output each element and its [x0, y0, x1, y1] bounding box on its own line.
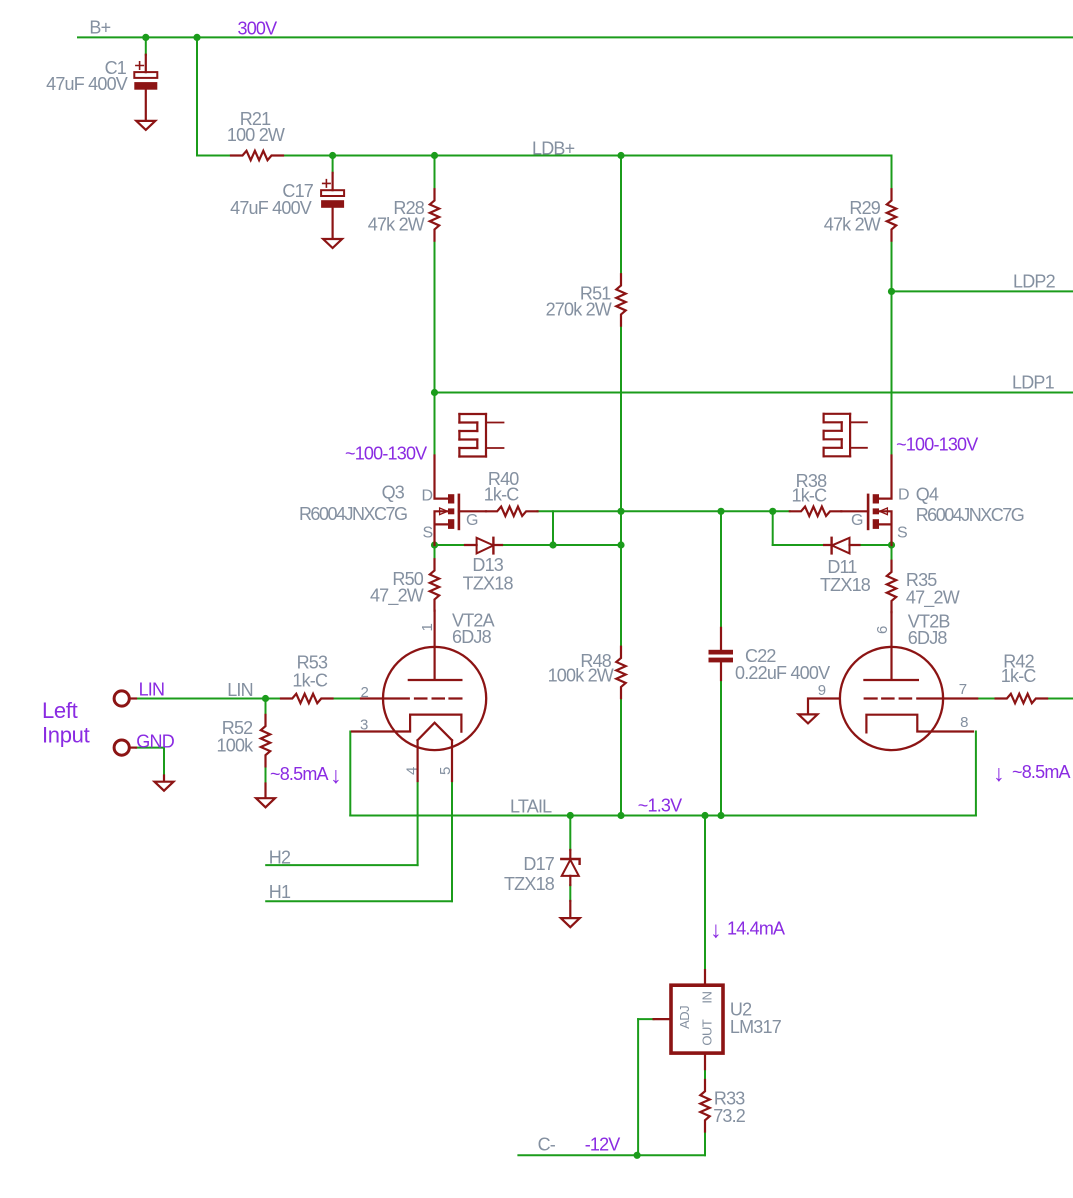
svg-text:73.2: 73.2	[713, 1106, 746, 1126]
svg-text:9: 9	[818, 682, 826, 699]
svg-text:S: S	[897, 525, 907, 542]
svg-text:Q4: Q4	[916, 485, 939, 505]
svg-text:1k-C: 1k-C	[484, 485, 520, 505]
svg-text:8: 8	[960, 714, 968, 731]
svg-text:5: 5	[437, 767, 454, 775]
svg-text:Q3: Q3	[382, 483, 405, 503]
svg-text:D13: D13	[472, 555, 503, 575]
svg-text:1: 1	[419, 624, 436, 632]
svg-text:IN: IN	[700, 991, 715, 1003]
svg-text:LDP1: LDP1	[1012, 373, 1055, 393]
svg-text:S: S	[423, 525, 433, 542]
svg-text:100k 2W: 100k 2W	[548, 666, 614, 686]
svg-text:~100-130V: ~100-130V	[896, 435, 978, 455]
svg-text:GND: GND	[136, 731, 174, 751]
svg-text:0.22uF 400V: 0.22uF 400V	[735, 663, 830, 683]
svg-text:100 2W: 100 2W	[227, 125, 285, 145]
svg-text:C-: C-	[538, 1134, 556, 1154]
svg-text:300V: 300V	[238, 18, 278, 38]
svg-text:TZX18: TZX18	[463, 573, 514, 593]
svg-text:LDB+: LDB+	[532, 138, 575, 158]
svg-text:TZX18: TZX18	[504, 874, 555, 894]
svg-text:Input: Input	[42, 722, 90, 747]
svg-text:R6004JNXC7G: R6004JNXC7G	[916, 505, 1024, 525]
svg-text:↓: ↓	[710, 917, 722, 943]
svg-text:1k-C: 1k-C	[1001, 666, 1037, 686]
svg-text:LIN: LIN	[139, 680, 165, 700]
svg-text:47k 2W: 47k 2W	[368, 214, 425, 234]
svg-text:R53: R53	[297, 652, 328, 672]
svg-text:D17: D17	[523, 854, 554, 874]
svg-text:100k: 100k	[217, 736, 255, 756]
svg-text:47uF 400V: 47uF 400V	[46, 74, 128, 94]
svg-text:3: 3	[360, 716, 368, 733]
svg-text:47_2W: 47_2W	[370, 585, 424, 606]
svg-text:2: 2	[361, 684, 369, 701]
svg-text:7: 7	[959, 681, 967, 698]
svg-text:4: 4	[404, 767, 421, 775]
svg-text:6DJ8: 6DJ8	[908, 628, 948, 648]
svg-text:G: G	[466, 512, 478, 529]
svg-text:ADJ: ADJ	[677, 1006, 692, 1029]
svg-text:1k-C: 1k-C	[791, 486, 827, 506]
svg-text:TZX18: TZX18	[820, 575, 871, 595]
svg-text:LM317: LM317	[730, 1017, 782, 1037]
svg-text:~100-130V: ~100-130V	[345, 444, 427, 464]
svg-text:↓: ↓	[330, 762, 342, 788]
svg-text:LTAIL: LTAIL	[510, 796, 552, 816]
svg-text:LDP2: LDP2	[1013, 272, 1056, 292]
svg-text:Left: Left	[42, 698, 78, 723]
svg-text:D: D	[898, 487, 909, 504]
svg-text:~8.5mA: ~8.5mA	[1012, 762, 1071, 782]
svg-text:270k 2W: 270k 2W	[546, 300, 612, 320]
svg-text:H2: H2	[269, 848, 291, 868]
svg-text:~1.3V: ~1.3V	[638, 796, 682, 816]
svg-text:6DJ8: 6DJ8	[452, 627, 492, 647]
svg-text:6: 6	[874, 626, 891, 634]
svg-text:47uF 400V: 47uF 400V	[230, 198, 312, 218]
svg-text:47_2W: 47_2W	[906, 588, 960, 609]
svg-text:OUT: OUT	[700, 1019, 715, 1046]
svg-text:~8.5mA: ~8.5mA	[270, 764, 329, 784]
svg-text:G: G	[851, 512, 863, 529]
svg-text:-12V: -12V	[585, 1135, 621, 1155]
svg-text:D11: D11	[827, 557, 857, 577]
svg-text:H1: H1	[269, 882, 291, 902]
svg-text:↓: ↓	[993, 760, 1005, 786]
svg-text:D: D	[422, 488, 433, 505]
svg-text:14.4mA: 14.4mA	[727, 918, 785, 938]
svg-text:R6004JNXC7G: R6004JNXC7G	[299, 504, 407, 524]
svg-text:B+: B+	[89, 17, 110, 37]
svg-text:47k 2W: 47k 2W	[824, 214, 881, 234]
svg-text:1k-C: 1k-C	[292, 670, 328, 690]
svg-text:LIN: LIN	[227, 680, 253, 700]
